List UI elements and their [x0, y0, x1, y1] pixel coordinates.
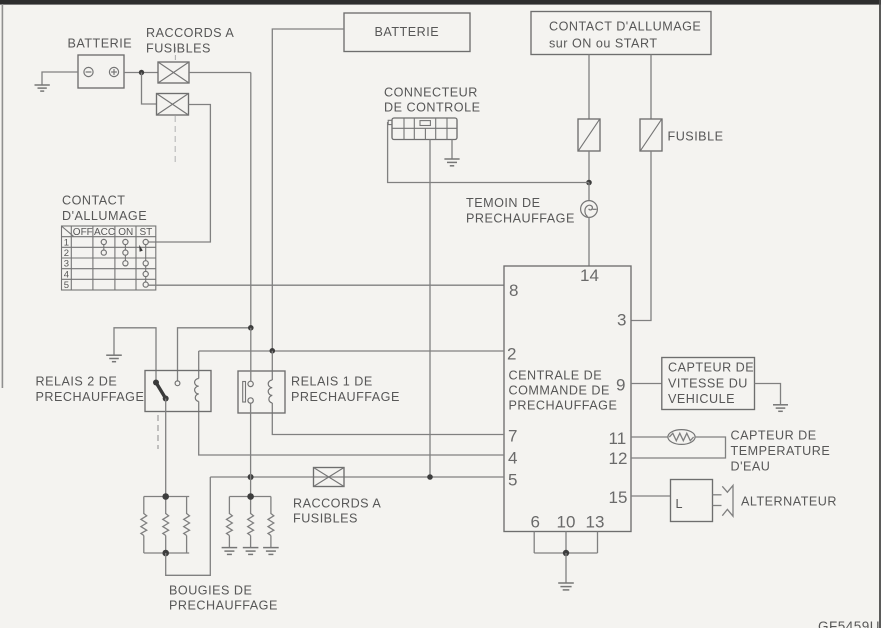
svg-text:PRECHAUFFAGE: PRECHAUFFAGE — [509, 399, 618, 413]
relay K2 (relais 2 de prechauffage) — [145, 371, 211, 412]
label RELAIS 1 DE PRECHAUFFAGE — [291, 375, 400, 405]
wire top batterie down to coil node — [272, 29, 344, 351]
node bus top A — [162, 493, 169, 500]
fusible link FL3 (bougies feed) — [314, 468, 345, 487]
ignition switch table SW1 — [62, 226, 156, 291]
relay K1 (relais 1 de prechauffage) — [238, 371, 285, 413]
svg-text:BATTERIE: BATTERIE — [375, 25, 440, 39]
svg-text:D'ALLUMAGE: D'ALLUMAGE — [62, 209, 147, 223]
wire relay2 coil bottom to pin 4 — [199, 402, 504, 456]
ground G2 (connector) — [444, 159, 459, 166]
pin 12 label — [609, 449, 628, 468]
wire pin 15 to alternator — [631, 495, 671, 497]
svg-text:TEMOIN DE: TEMOIN DE — [466, 196, 540, 210]
svg-text:ACC: ACC — [94, 227, 115, 238]
wire battery positive to node — [124, 72, 158, 74]
svg-text:BATTERIE: BATTERIE — [68, 37, 133, 51]
ground G4 (plug B1) — [222, 548, 238, 555]
wire pin 9 to speed sensor — [631, 383, 662, 385]
wires pins 6 10 13 to ground bus — [534, 532, 597, 554]
ground G3 (relay 2) — [106, 355, 122, 362]
pin 10 label — [557, 513, 576, 532]
pin 13 label — [586, 513, 605, 532]
svg-text:RACCORDS A: RACCORDS A — [146, 26, 234, 40]
battery B1 — [78, 55, 124, 88]
svg-text:PRECHAUFFAGE: PRECHAUFFAGE — [291, 390, 400, 404]
wire relay1 contact output to plugs — [250, 403, 252, 496]
left page border line — [1, 4, 3, 388]
box BATTERIE (top feed) — [344, 13, 470, 52]
svg-text:4: 4 — [508, 449, 517, 468]
crease artifact dashes — [174, 47, 176, 166]
wire relay1 coil top riser — [271, 351, 273, 380]
indicator lamp L1 — [581, 183, 598, 218]
node pin5/connector junction — [427, 474, 433, 480]
svg-text:3: 3 — [64, 259, 69, 270]
ground G5 (plug B2) — [243, 548, 259, 555]
svg-text:FUSIBLES: FUSIBLES — [146, 42, 211, 56]
svg-text:PRECHAUFFAGE: PRECHAUFFAGE — [466, 212, 575, 226]
pin 7 label — [508, 427, 517, 446]
node ground bus — [563, 550, 569, 556]
svg-text:15: 15 — [609, 488, 628, 507]
node lamp junction — [586, 180, 592, 186]
pin 11 label — [609, 429, 627, 448]
wire ground bus down — [565, 553, 567, 583]
pin 15 label — [609, 488, 628, 507]
svg-text:5: 5 — [64, 280, 69, 291]
wire connector to ground — [451, 140, 453, 159]
svg-text:CONTACT: CONTACT — [62, 194, 125, 208]
wire FL2 to ignition switch row1 — [148, 105, 210, 243]
svg-text:FUSIBLE: FUSIBLE — [668, 130, 724, 144]
label CAPTEUR DE TEMPERATURE D'EAU — [731, 429, 831, 474]
label BOUGIES DE PRECHAUFFAGE — [169, 584, 278, 613]
wire F1 to lamp node — [588, 151, 590, 183]
label ALTERNATEUR — [741, 495, 837, 509]
wire battery negative to ground — [42, 72, 78, 85]
svg-text:sur ON ou START: sur ON ou START — [549, 37, 658, 51]
svg-text:10: 10 — [557, 513, 576, 532]
svg-text:2: 2 — [507, 345, 516, 364]
ground G6 (plug B3) — [263, 548, 279, 555]
svg-text:DE CONTROLE: DE CONTROLE — [384, 101, 480, 115]
label BATTERIE (left battery) — [68, 37, 133, 51]
wire contact box to fuse F1 — [588, 55, 590, 120]
svg-text:L: L — [676, 497, 684, 511]
svg-text:BOUGIES DE: BOUGIES DE — [169, 584, 252, 598]
wire relay2 switch output to bougies bus — [165, 399, 167, 497]
switch contacts ST column — [143, 239, 148, 287]
svg-text:COMMANDE DE: COMMANDE DE — [509, 384, 610, 398]
wire lamp to pin 14 — [588, 217, 590, 266]
pin 3 label — [617, 311, 626, 330]
figure code GF5459U — [818, 619, 880, 628]
box CONTACT D'ALLUMAGE sur ON ou START — [531, 12, 711, 55]
svg-text:4: 4 — [64, 269, 69, 280]
control unit U1 (centrale de commande) — [504, 266, 631, 532]
fusible link FL1 — [158, 62, 189, 83]
label RACCORDS A FUSIBLES (top) — [146, 26, 234, 56]
speed sensor box (capteur de vitesse) — [662, 358, 755, 410]
alternator connector stubs — [713, 495, 722, 506]
svg-text:TEMPERATURE: TEMPERATURE — [731, 444, 831, 458]
svg-text:ON: ON — [118, 227, 133, 238]
svg-text:ST: ST — [140, 227, 153, 238]
svg-text:6: 6 — [531, 513, 540, 532]
svg-text:RELAIS 2 DE: RELAIS 2 DE — [36, 375, 118, 389]
svg-text:5: 5 — [508, 471, 517, 490]
svg-text:CENTRALE DE: CENTRALE DE — [509, 369, 603, 383]
svg-text:D'EAU: D'EAU — [731, 460, 771, 474]
svg-text:11: 11 — [609, 429, 627, 448]
fuse F2 — [640, 119, 662, 151]
wire speed sensor to ground — [755, 384, 781, 405]
svg-text:13: 13 — [586, 513, 605, 532]
label FUSIBLE — [668, 130, 724, 144]
svg-text:7: 7 — [508, 427, 517, 446]
wire relay2 switch to ground — [114, 328, 156, 383]
pin 9 label — [616, 376, 625, 395]
fuse F1 — [578, 119, 600, 151]
node bus top B — [247, 493, 254, 500]
pin 2 label — [507, 345, 516, 364]
label RELAIS 2 DE PRECHAUFFAGE — [36, 375, 145, 405]
wire F2 to pin 3 — [631, 151, 651, 321]
svg-text:ALTERNATEUR: ALTERNATEUR — [741, 495, 837, 509]
ground G1 (battery) — [35, 85, 50, 91]
pin 6 label — [531, 513, 540, 532]
node pin5/relay1 junction — [248, 474, 254, 480]
wire relay1 coil bottom to pin 7 — [272, 403, 504, 435]
pin 14 label — [580, 266, 599, 285]
connector J1 (connecteur de controle) — [388, 118, 457, 140]
svg-text:12: 12 — [609, 449, 628, 468]
glow plugs group B (right bank) — [227, 497, 274, 548]
ground G8 (control unit) — [558, 583, 574, 590]
svg-text:FUSIBLES: FUSIBLES — [293, 512, 358, 526]
fusible link FL2 — [157, 94, 189, 116]
wire contact box to fuse F2 — [650, 55, 652, 120]
wire pin 2 feed — [199, 350, 504, 352]
wire relay1 contact input — [250, 328, 252, 382]
svg-text:3: 3 — [617, 311, 626, 330]
artifact cursor mark — [139, 245, 143, 252]
svg-text:GF5459U: GF5459U — [818, 619, 880, 628]
svg-text:RELAIS 1 DE: RELAIS 1 DE — [291, 375, 373, 389]
svg-text:14: 14 — [580, 266, 599, 285]
svg-text:VEHICULE: VEHICULE — [668, 392, 735, 406]
wire lamp node to connector — [388, 122, 589, 183]
svg-text:PRECHAUFFAGE: PRECHAUFFAGE — [36, 390, 145, 404]
pin 4 label — [508, 449, 517, 468]
wire FL1 to vertical feed — [189, 72, 251, 74]
label CONTACT D'ALLUMAGE (switch table) — [62, 194, 147, 224]
glow plugs group A (left bank) — [141, 497, 190, 554]
mechanical link dashes — [157, 415, 159, 449]
svg-text:CONNECTEUR: CONNECTEUR — [384, 86, 478, 100]
coolant temp sensor RT1 — [668, 430, 695, 445]
wire FL1 feed down to relay node — [250, 73, 252, 328]
ground G7 (speed sensor) — [773, 405, 788, 412]
wire ignition row5 to pin 8 — [148, 284, 504, 286]
wire relay2 coil top riser — [198, 351, 200, 379]
label TEMOIN DE PRECHAUFFAGE — [466, 196, 575, 226]
node battery junction — [139, 70, 144, 75]
wire temp sensor return to pin 12 — [631, 437, 726, 458]
svg-text:9: 9 — [616, 376, 625, 395]
label CONNECTEUR DE CONTROLE — [384, 86, 480, 115]
wire node down to FL2 — [142, 73, 157, 105]
wire FL1 node to relay2 contact — [178, 328, 251, 381]
wire glow plug feed to pin 5 — [210, 476, 504, 478]
svg-text:CONTACT D'ALLUMAGE: CONTACT D'ALLUMAGE — [549, 20, 701, 34]
wire connector test terminal down to pin5 line — [429, 140, 431, 478]
switch contacts ACC column — [101, 239, 106, 255]
svg-text:8: 8 — [509, 281, 518, 300]
svg-text:2: 2 — [64, 248, 69, 259]
svg-text:OFF: OFF — [73, 227, 93, 238]
top black border bar — [0, 0, 881, 5]
wire pin 11 to temp sensor — [631, 436, 668, 438]
wire bank A to FL3/pin5 — [166, 477, 211, 575]
alternator connector symbol — [722, 485, 733, 516]
switch contacts ON column — [123, 239, 128, 266]
svg-text:RACCORDS A: RACCORDS A — [293, 497, 381, 511]
alternator terminal box — [671, 480, 713, 522]
right page border line — [879, 0, 881, 628]
pin 8 label — [509, 281, 518, 300]
node FL1/relay2 junction — [248, 325, 254, 331]
svg-text:CAPTEUR DE: CAPTEUR DE — [731, 429, 817, 443]
label RACCORDS A FUSIBLES (bottom) — [293, 497, 381, 526]
svg-text:VITESSE DU: VITESSE DU — [668, 377, 748, 391]
pin 5 label — [508, 471, 517, 490]
svg-text:1: 1 — [64, 237, 69, 248]
svg-text:PRECHAUFFAGE: PRECHAUFFAGE — [169, 599, 278, 613]
svg-text:CAPTEUR DE: CAPTEUR DE — [668, 361, 754, 375]
node pin2/coil feed junction — [270, 348, 276, 354]
node bus bottom A — [162, 550, 169, 557]
